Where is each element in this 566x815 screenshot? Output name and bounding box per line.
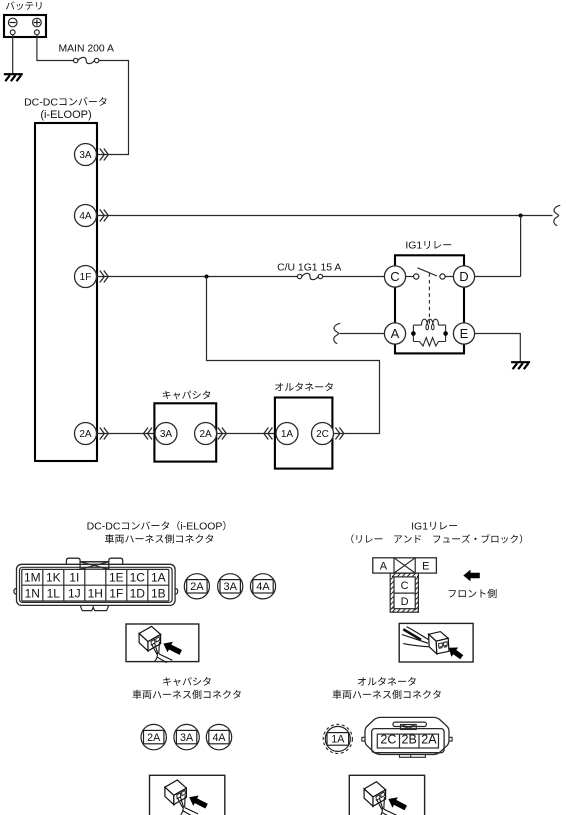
- svg-text:3A: 3A: [79, 150, 92, 161]
- svg-text:DC-DC: DC-DC: [24, 96, 58, 108]
- svg-text:C: C: [390, 269, 399, 284]
- svg-text:2C: 2C: [380, 732, 396, 746]
- svg-text:1D: 1D: [130, 586, 146, 600]
- svg-text:1E: 1E: [109, 571, 124, 585]
- svg-text:2A: 2A: [190, 581, 204, 593]
- svg-text:1A: 1A: [281, 429, 294, 440]
- svg-text:1N: 1N: [25, 586, 40, 600]
- svg-text:2A: 2A: [199, 429, 212, 440]
- svg-text:D: D: [401, 596, 409, 608]
- svg-text:1H: 1H: [88, 586, 103, 600]
- svg-text:2A: 2A: [79, 429, 92, 440]
- svg-text:C/U 1G1 15 A: C/U 1G1 15 A: [277, 263, 341, 274]
- svg-text:DC-DC: DC-DC: [87, 520, 121, 532]
- svg-text:1C: 1C: [130, 571, 146, 585]
- svg-text:E: E: [460, 326, 469, 341]
- svg-text:(i-ELOOP): (i-ELOOP): [40, 109, 91, 121]
- svg-text:1F: 1F: [80, 272, 92, 283]
- svg-text:IG1: IG1: [411, 520, 428, 532]
- svg-text:1A: 1A: [151, 571, 166, 585]
- svg-text:3A: 3A: [180, 732, 194, 744]
- svg-text:MAIN 200 A: MAIN 200 A: [58, 44, 114, 55]
- svg-text:A: A: [380, 560, 388, 572]
- svg-text:3A: 3A: [160, 429, 173, 440]
- svg-text:1I: 1I: [69, 571, 79, 585]
- svg-text:1M: 1M: [24, 571, 41, 585]
- svg-text:1F: 1F: [109, 586, 123, 600]
- svg-text:i-ELOOP: i-ELOOP: [180, 520, 222, 532]
- svg-text:4A: 4A: [79, 211, 92, 222]
- svg-text:1B: 1B: [151, 586, 166, 600]
- svg-text:IG1: IG1: [405, 240, 422, 252]
- svg-text:1K: 1K: [46, 571, 61, 585]
- svg-text:1J: 1J: [68, 586, 81, 600]
- svg-text:2C: 2C: [316, 429, 329, 440]
- svg-text:E: E: [422, 560, 429, 572]
- svg-text:3A: 3A: [223, 581, 237, 593]
- svg-text:2A: 2A: [147, 732, 161, 744]
- svg-text:4A: 4A: [256, 581, 270, 593]
- svg-text:2A: 2A: [421, 732, 437, 746]
- svg-text:4A: 4A: [212, 732, 226, 744]
- svg-text:1A: 1A: [331, 734, 345, 746]
- svg-text:C: C: [401, 580, 409, 592]
- svg-text:2B: 2B: [402, 732, 417, 746]
- svg-text:1L: 1L: [47, 586, 61, 600]
- svg-text:A: A: [391, 326, 400, 341]
- svg-text:D: D: [459, 269, 468, 284]
